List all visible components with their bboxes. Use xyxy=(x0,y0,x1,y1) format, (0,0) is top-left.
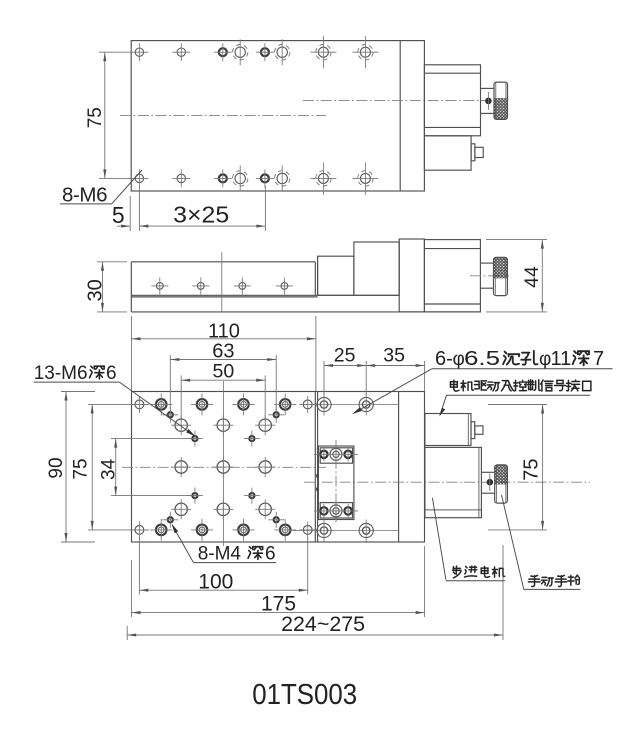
dimension 90 line xyxy=(65,392,67,543)
front view counterbore hole (366.2,404.5) xyxy=(359,397,373,411)
side view shaft centerline xyxy=(470,275,509,277)
dimension 5 line+arrow xyxy=(117,225,130,227)
front view M6 hole (265.2,509.3) xyxy=(259,503,271,515)
side view motor flange block xyxy=(399,239,424,312)
svg-text:5: 5 xyxy=(112,202,125,228)
label stepper-motor leader xyxy=(432,498,446,580)
svg-text:8-M4: 8-M4 xyxy=(198,544,242,565)
top view table centerline xyxy=(120,115,326,117)
svg-text:34: 34 xyxy=(99,458,120,480)
side view bearing block xyxy=(318,256,354,295)
label 8-M4deep6 leader xyxy=(173,526,194,563)
front view row A M6 counterbore hole x161.2 xyxy=(156,399,167,410)
front view M6 hole (265.2,467.0) xyxy=(259,461,271,473)
svg-text:75: 75 xyxy=(85,107,106,128)
dimension 25 line xyxy=(324,365,366,367)
top view bottom row counterbore hole x365.4 xyxy=(360,173,370,183)
front view row I M6 counterbore hole x161.2 xyxy=(156,525,167,536)
svg-text:75: 75 xyxy=(71,458,92,479)
svg-text:44: 44 xyxy=(521,266,543,288)
front view shaft dot xyxy=(487,479,494,486)
front view M4 hole (251.9,495.6) xyxy=(249,493,254,498)
svg-text:φ: φ xyxy=(453,349,465,370)
front view M6 hole (223.3,467.0) xyxy=(217,461,229,473)
front view handwheel knurl xyxy=(495,465,508,485)
dimension 50 arrows xyxy=(181,379,190,382)
svg-text:6.5: 6.5 xyxy=(464,348,500,370)
label manual-handwheel underline xyxy=(524,588,581,590)
front view M4 hole (170.3,414.8) xyxy=(168,412,173,417)
top view bottom row M6 thin hole x181 xyxy=(177,174,185,182)
top view stepper motor body xyxy=(424,65,480,136)
top view bottom row M6 thick hole x223 xyxy=(219,174,227,182)
label 6-dia6.5 leader xyxy=(354,369,432,413)
top view motor flange ring top line xyxy=(424,72,480,74)
front view bearing screws row y510.9 xyxy=(320,507,327,514)
front view M4 hole (276.2,414.8) xyxy=(274,412,279,417)
front view M6 hole (181.2,467.0) xyxy=(175,461,187,473)
dimension 75 (top view) arrows xyxy=(103,52,106,61)
dimension 110 arrows xyxy=(132,337,141,340)
svg-text:01TS003: 01TS003 xyxy=(252,679,357,711)
side view base top interface line xyxy=(131,294,399,296)
svg-text:90: 90 xyxy=(46,457,67,478)
dimension 50 extension lines xyxy=(180,376,182,422)
dimension 25 arrows xyxy=(324,364,333,367)
side view shaft coupling xyxy=(480,262,493,264)
svg-text:224~275: 224~275 xyxy=(281,613,365,636)
side view left edge xyxy=(130,262,132,312)
front view stepper motor body xyxy=(425,447,482,517)
svg-text:110: 110 xyxy=(208,321,240,343)
front view table vertical centerline xyxy=(222,381,224,546)
svg-text:100: 100 xyxy=(198,570,233,593)
label manual-handwheel leader xyxy=(502,495,524,590)
label 6-dia6.5 underline xyxy=(432,368,613,370)
front view handwheel outline xyxy=(495,465,508,503)
front view M4 hole (276.2,519.8) xyxy=(274,517,279,522)
top view handwheel outline xyxy=(494,82,508,119)
front view M4 hole (194.9,495.6) xyxy=(192,493,197,498)
front view M6 hole (265.2,425.2) xyxy=(259,419,271,431)
dimension 34 extension lines xyxy=(111,438,200,440)
svg-text:6-: 6- xyxy=(435,348,453,370)
front view row I corner hole x308 xyxy=(303,526,312,535)
svg-text:8-M6: 8-M6 xyxy=(62,184,107,207)
side view handwheel inner edges xyxy=(494,258,496,295)
svg-text:50: 50 xyxy=(213,361,235,383)
front view base outline xyxy=(132,392,425,543)
label 8-M4deep6 underline xyxy=(194,562,277,564)
top view shaft coupling xyxy=(481,87,495,89)
dimension 3x25 arrows xyxy=(139,225,148,228)
dimension 75 (top view) extension lines xyxy=(99,51,131,53)
dimension 5/3x25 extension lines xyxy=(129,196,131,231)
front view handwheel inner edges xyxy=(495,466,497,502)
top view handwheel inner edges xyxy=(495,83,497,119)
dimension 44 extension lines xyxy=(486,239,547,241)
top view top row hidden counterbore x240.2 xyxy=(235,47,245,57)
front view bearing block vertical centerline xyxy=(335,440,337,525)
side view table hole x159.8 xyxy=(156,283,163,290)
top view top row M6 thin hole x139 xyxy=(135,48,143,56)
top view top row M6 thin hole x181 xyxy=(177,48,185,56)
label 13-M6deep6 underline xyxy=(34,381,120,383)
side view table hole x200.8 xyxy=(197,283,204,290)
side view screw housing block xyxy=(354,242,399,295)
front view hole-grid centerline xyxy=(122,466,326,468)
side view motor flange ring lines xyxy=(424,248,480,250)
side view stepper motor body xyxy=(424,240,480,312)
front view connector box inner edge xyxy=(467,414,469,446)
dimension 30 line xyxy=(102,262,104,312)
dimension 75 (right) extension lines xyxy=(488,404,547,406)
label stepper-motor text xyxy=(453,566,461,578)
front view bearing block outline xyxy=(318,446,354,520)
front view row A M6 counterbore hole x243.5 xyxy=(238,399,249,410)
top view connector plug xyxy=(471,144,475,161)
dimension 44 arrows xyxy=(541,240,544,249)
side view table right edge double line xyxy=(314,262,316,296)
dimension 75 (right) arrows xyxy=(541,405,544,414)
side view handwheel outline xyxy=(494,257,508,295)
front view motor flange line xyxy=(398,392,400,543)
dimension 30 arrows xyxy=(101,262,104,271)
front view counterbore hole (324.0,530.5) xyxy=(317,523,331,537)
dimension 90 extension lines xyxy=(61,391,95,393)
dimension 25/35 extension lines xyxy=(323,361,325,398)
front view gib adjustment ticks xyxy=(316,474,319,477)
svg-text:13-M6: 13-M6 xyxy=(34,363,88,384)
top view screw axis centerline xyxy=(303,100,491,102)
label motor-drive-interface text xyxy=(450,380,459,391)
dimension 34 arrows xyxy=(114,439,117,448)
svg-text:11: 11 xyxy=(551,348,572,370)
label 8-M6 leader xyxy=(112,170,142,204)
front view row I M6 counterbore hole x202.0 xyxy=(197,525,208,536)
side view table hole x284.4 xyxy=(281,283,288,290)
dimension 100 extension lines xyxy=(138,537,140,595)
svg-text:30: 30 xyxy=(85,279,107,301)
dimension 110 extension lines xyxy=(131,316,133,392)
svg-text:63: 63 xyxy=(212,341,234,363)
front view M6 hole (223.3,509.3) xyxy=(217,503,229,515)
front view M6 hole (181.2,425.2) xyxy=(175,419,187,431)
dimension 175 extension lines xyxy=(131,560,133,617)
dimension 90 arrows xyxy=(64,392,67,401)
top view connector box xyxy=(424,136,471,170)
svg-text:25: 25 xyxy=(334,345,356,367)
side view table centerline xyxy=(221,252,223,312)
front view bearing block bottom band xyxy=(320,503,352,518)
front view M4 hole (170.3,519.8) xyxy=(168,517,173,522)
dimension 175 line xyxy=(132,612,425,614)
label manual-handwheel text xyxy=(528,575,539,586)
front view motor end cap line xyxy=(478,447,480,517)
front view row A M6 counterbore hole x202.0 xyxy=(197,399,208,410)
svg-text:7: 7 xyxy=(593,348,604,370)
front view counterbore hole (324.0,404.5) xyxy=(317,397,331,411)
front view row I corner hole x139 xyxy=(135,526,144,535)
svg-text:6: 6 xyxy=(265,544,276,565)
svg-text:3×25: 3×25 xyxy=(173,202,229,228)
label 8-M6 underline xyxy=(60,203,112,205)
top view top row M6 thick hole x265 xyxy=(261,48,269,56)
top view top row counterbore hole x365.4 xyxy=(360,47,370,57)
top view handwheel knurl xyxy=(494,98,508,119)
dimension 3x25 line xyxy=(139,225,265,227)
front view connector plug xyxy=(471,422,475,439)
front view M6 hole (223.3,425.2) xyxy=(217,419,229,431)
dimension 63 line xyxy=(170,359,276,361)
svg-text:75: 75 xyxy=(520,458,542,480)
dimension 63 arrows xyxy=(170,358,179,361)
front view counterbore row lines xyxy=(304,404,399,406)
side view handwheel knurl xyxy=(494,257,508,278)
dimension 224~275 extension lines xyxy=(126,626,128,640)
top view motor flange line xyxy=(399,41,401,191)
top view top row M6 thick hole x223 xyxy=(219,48,227,56)
label motor-drive-interface underline xyxy=(447,394,591,396)
front view counterbore hole (366.2,530.5) xyxy=(359,523,373,537)
top view top row hidden counterbore x282.2 xyxy=(277,47,287,57)
side view table hole x242.3 xyxy=(239,283,246,290)
side view base bottom line xyxy=(131,311,480,313)
dimension 35 arrows xyxy=(366,364,375,367)
front view connector box xyxy=(425,414,471,446)
dimension 224~275 arrows xyxy=(127,633,136,636)
top view main body outline xyxy=(131,41,424,191)
top view shaft dot xyxy=(485,98,492,105)
dimension 75 (front) arrows xyxy=(91,404,94,413)
front view bearing block top band xyxy=(320,448,352,463)
top view bottom row M6 thin hole x139 xyxy=(135,174,143,182)
top view motor flange ring bottom line xyxy=(424,126,480,128)
dimension 50 line xyxy=(181,379,265,381)
dimension 35 line xyxy=(366,365,424,367)
front view row I M6 counterbore hole x285.2 xyxy=(280,525,291,536)
dimension 75 (top view) line xyxy=(104,52,106,178)
side view table top line xyxy=(131,261,315,263)
front view screw axis centerline xyxy=(304,481,590,483)
dimension 34 line xyxy=(115,439,117,496)
label stepper-motor underline xyxy=(446,580,505,582)
front view row A corner hole x139 xyxy=(135,400,144,409)
dimension 63 extension lines xyxy=(169,355,171,411)
top view bottom row hidden counterbore x240.2 xyxy=(235,173,245,183)
dimension 110 line xyxy=(132,338,316,340)
top view bottom row M6 thick hole x265 xyxy=(261,174,269,182)
svg-text:φ: φ xyxy=(539,349,551,370)
front view table right edge double line xyxy=(314,392,316,543)
dimension 75 (front) line xyxy=(91,404,93,530)
svg-text:35: 35 xyxy=(383,345,405,367)
label 13-M6deep6 leader xyxy=(119,382,193,435)
front view motor bottom ring line xyxy=(425,509,482,511)
dimension 100 arrows xyxy=(139,589,148,592)
top view bottom row counterbore hole x323.4 xyxy=(318,173,328,183)
dimension 75 (front) extension lines xyxy=(88,403,149,405)
svg-text:6: 6 xyxy=(106,363,117,384)
front view M6 hole (181.2,509.3) xyxy=(175,503,187,515)
top view top row counterbore hole x323.4 xyxy=(318,47,328,57)
front view row I M6 counterbore hole x243.5 xyxy=(238,525,249,536)
dimension 175 arrows xyxy=(132,611,141,614)
dimension 100 line xyxy=(139,589,307,591)
top view bottom row hidden counterbore x282.2 xyxy=(277,173,287,183)
front view bearing screws row y454.3 xyxy=(320,451,327,458)
front view M4 hole (251.9,438.6) xyxy=(249,436,254,441)
dimension 30 extension lines xyxy=(97,261,127,263)
front view shaft coupling xyxy=(481,471,494,473)
front view row A corner hole x308 xyxy=(303,400,312,409)
dimension 224~275 line xyxy=(127,634,503,636)
dimension 44 line xyxy=(541,240,543,312)
dimension 75 (right) line xyxy=(542,405,544,530)
label motor-drive-interface leader xyxy=(440,395,447,415)
front view row A M6 counterbore hole x285.2 xyxy=(280,399,291,410)
front view M4 hole (194.9,438.6) xyxy=(192,436,197,441)
